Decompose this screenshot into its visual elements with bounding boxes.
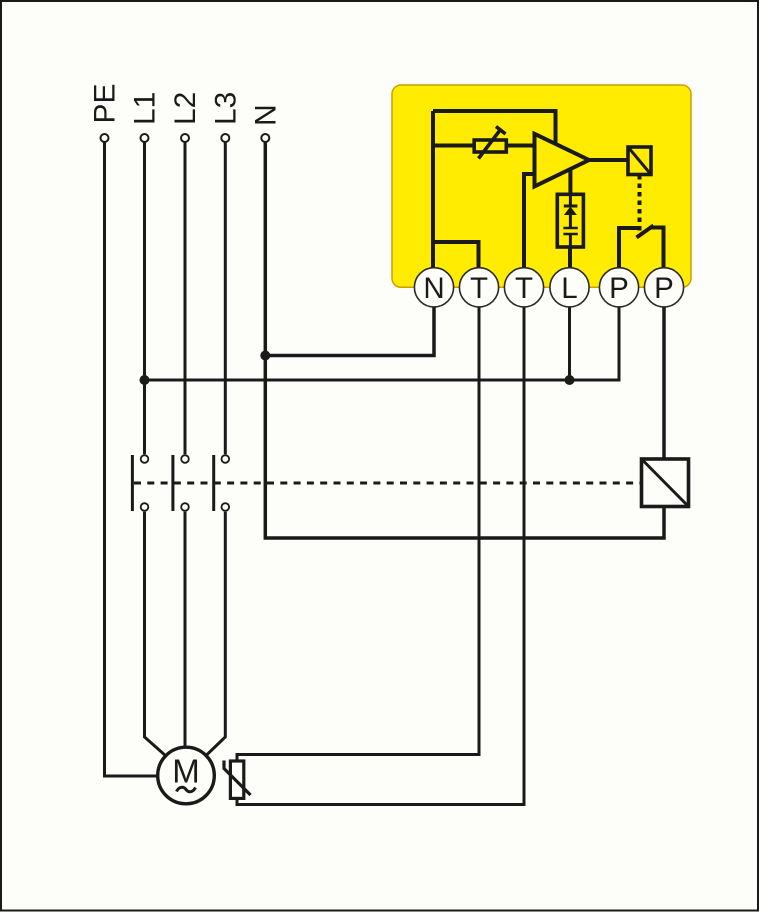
diode triangle: [564, 207, 577, 216]
wire T2 to op-amp input: [524, 174, 535, 268]
svg-text:N: N: [249, 104, 282, 126]
wire L1 contact to motor: [145, 512, 167, 756]
contact pole 3 (L3): [222, 455, 230, 463]
wire relay P2 down to coil: [662, 307, 666, 459]
diode cathode bar: [564, 205, 578, 208]
wire PE vertical + to motor: [105, 142, 159, 776]
input terminal L3: [221, 134, 229, 142]
wire node N to relay terminal N: [265, 307, 434, 356]
svg-text:T: T: [470, 272, 488, 305]
op-amp comparator U1: [535, 134, 590, 187]
wire L1 node to relay terminals L and P: [145, 307, 620, 380]
wire zener block to terminal L: [568, 247, 572, 268]
input terminal PE: [101, 134, 109, 142]
relay internal wiring: [433, 111, 628, 268]
svg-text:N: N: [423, 272, 444, 305]
contact blade: [637, 226, 654, 238]
svg-text:L1: L1: [129, 92, 162, 125]
capacitor lead: [569, 234, 572, 247]
capacitor plates: [563, 228, 577, 234]
wire N rail to trimmer: [433, 144, 474, 148]
svg-text:P: P: [654, 272, 674, 305]
wire N rail branch to T1: [433, 242, 479, 268]
contact pole 1 (L1): [141, 455, 149, 463]
svg-text:PE: PE: [89, 83, 122, 123]
relay terminal P1: [599, 268, 638, 307]
wire L2 terminal to contact: [184, 142, 187, 454]
relay coil K1 (inside module): [628, 147, 651, 175]
wire relay T1 down to thermistor top: [237, 307, 479, 761]
wire internal left vertical (N rail): [431, 111, 435, 268]
relay terminal T2: [504, 268, 543, 307]
wire op-amp output to relay coil: [589, 158, 628, 162]
dashed actuator link (coil to contact): [638, 175, 642, 232]
input terminal L2: [181, 134, 189, 142]
thermistor RT: [224, 761, 251, 799]
contact pole 2 (L2): [181, 455, 189, 463]
relay terminal L: [550, 268, 589, 307]
wire L3 terminal to contact: [224, 142, 227, 454]
contactor K1 main contacts: [132, 455, 229, 511]
junction node on L1: [140, 375, 150, 385]
input terminal N: [261, 134, 269, 142]
zener/diode block: [557, 194, 583, 268]
svg-text:L2: L2: [169, 92, 202, 125]
svg-text:M: M: [172, 753, 200, 790]
wire trimmer to op-amp input: [506, 144, 534, 148]
dashed mechanical linkage to contactor coil: [134, 482, 642, 485]
wire relay T2 down to thermistor bottom: [237, 307, 524, 805]
junction node on relay L wire: [565, 375, 575, 385]
wire op-amp to zener block: [568, 170, 572, 194]
wire N vertical down and to contactor coil: [265, 142, 664, 538]
trimmer resistor: [474, 127, 506, 159]
relay terminal N: [414, 268, 453, 307]
relay terminal P2: [644, 268, 683, 307]
diode leads: [569, 194, 572, 227]
wire feedback top loop: [433, 111, 556, 144]
contactor coil K1: [642, 459, 689, 507]
svg-text:P: P: [609, 272, 629, 305]
wire L2 contact to motor: [184, 512, 187, 748]
relay terminal T1: [459, 268, 498, 307]
svg-text:L3: L3: [209, 92, 242, 125]
wire L1 terminal to contact: [143, 142, 146, 454]
input terminal L1: [141, 134, 149, 142]
svg-text:L: L: [561, 272, 577, 305]
relay output contact P-P: [619, 226, 664, 269]
wire L3 contact to motor: [206, 512, 226, 756]
junction node on N: [260, 351, 270, 361]
motor M: [158, 747, 215, 804]
wire relay L down to node: [568, 307, 571, 380]
svg-text:T: T: [515, 272, 533, 305]
relay module body (yellow): [392, 85, 691, 287]
